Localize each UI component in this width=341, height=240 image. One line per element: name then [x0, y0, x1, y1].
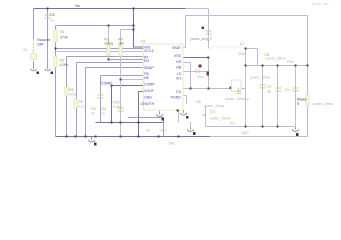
svg-text:R2: R2	[60, 59, 65, 63]
svg-text:22u: 22u	[284, 88, 290, 92]
svg-text:U1: U1	[141, 40, 146, 44]
svg-text:power_15mw: power_15mw	[250, 76, 271, 80]
svg-text:HB: HB	[176, 65, 182, 69]
svg-text:Cc: Cc	[102, 107, 107, 111]
svg-text:power_mw: power_mw	[312, 2, 329, 6]
svg-text:VCC2: VCC2	[144, 49, 154, 53]
svg-text:COMP: COMP	[144, 82, 155, 86]
svg-text:C8: C8	[196, 100, 201, 104]
svg-text:33uH: 33uH	[238, 52, 247, 56]
svg-text:VO: VO	[176, 76, 181, 80]
svg-text:374k: 374k	[60, 36, 68, 40]
svg-text:Rload: Rload	[297, 98, 306, 102]
svg-text:VSS: VSS	[174, 54, 182, 58]
svg-text:VOUT: VOUT	[144, 89, 155, 93]
svg-text:Vsource: Vsource	[37, 38, 50, 42]
svg-text:1KB: 1KB	[168, 142, 175, 146]
svg-text:V4: V4	[23, 48, 27, 52]
svg-text:1n: 1n	[102, 112, 106, 116]
svg-text:R5: R5	[69, 88, 74, 92]
svg-text:0.1u: 0.1u	[78, 105, 85, 109]
svg-text:C10: C10	[113, 101, 120, 105]
svg-text:1u: 1u	[50, 19, 54, 23]
svg-text:NE: NE	[144, 76, 150, 80]
svg-text:LS: LS	[177, 72, 182, 76]
svg-text:18k: 18k	[118, 42, 124, 46]
svg-text:C7: C7	[267, 85, 272, 89]
svg-text:5: 5	[297, 102, 299, 106]
svg-text:1u: 1u	[267, 90, 271, 94]
svg-text:COMP: COMP	[101, 82, 112, 86]
svg-text:4.99k: 4.99k	[60, 63, 69, 67]
svg-text:power_15mw: power_15mw	[313, 102, 334, 106]
svg-text:PVin: PVin	[287, 60, 294, 64]
svg-text:L1: L1	[240, 42, 244, 46]
svg-text:VK3: VK3	[160, 129, 167, 133]
svg-text:49.9k: 49.9k	[69, 93, 78, 97]
svg-text:power_15mw_p: power_15mw_p	[225, 97, 249, 101]
svg-text:C4: C4	[50, 13, 55, 17]
svg-text:3meg: 3meg	[104, 42, 113, 46]
svg-text:VBAT: VBAT	[172, 46, 182, 50]
svg-text:EN: EN	[144, 59, 149, 63]
svg-text:GND: GND	[144, 95, 152, 99]
svg-text:power_king_2: power_king_2	[191, 37, 212, 41]
svg-text:CS: CS	[176, 90, 182, 94]
svg-text:R1: R1	[60, 30, 65, 34]
svg-text:Vin: Vin	[75, 4, 80, 8]
svg-text:1u: 1u	[202, 113, 206, 117]
svg-text:19R: 19R	[37, 43, 44, 47]
svg-text:2n: 2n	[91, 112, 95, 116]
svg-text:HS: HS	[176, 60, 182, 64]
svg-text:power_15mw: power_15mw	[204, 104, 225, 108]
svg-text:power_15mw: power_15mw	[266, 57, 287, 61]
svg-text:power_15mw: power_15mw	[210, 117, 231, 121]
svg-text:PG: PG	[230, 122, 235, 126]
svg-text:A0: A0	[146, 129, 150, 133]
svg-text:PGND: PGND	[171, 95, 182, 99]
svg-text:C5: C5	[78, 100, 83, 104]
svg-text:0.01u: 0.01u	[113, 105, 122, 109]
svg-text:SNAP: SNAP	[144, 66, 154, 70]
svg-text:GND: GND	[241, 131, 249, 135]
svg-text:30m: 30m	[197, 75, 204, 79]
svg-text:GND/TH: GND/TH	[141, 102, 155, 106]
svg-text:C9: C9	[91, 107, 96, 111]
